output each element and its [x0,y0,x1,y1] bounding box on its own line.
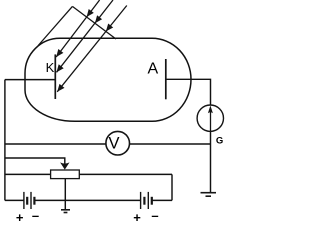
wire left rail [4,80,6,201]
potentiometer body [51,170,80,179]
svg-text:K: K [46,60,55,75]
svg-text:–: – [151,208,158,223]
phototube envelope [25,38,191,121]
light ray 3 [57,6,127,92]
wire V row right [130,143,211,145]
svg-text:G: G [216,135,223,146]
battery B2 cell short 2 [151,197,153,205]
wire K row [5,79,55,81]
svg-text:+: + [133,210,141,223]
light ray 1 [56,0,99,57]
svg-text:+: + [16,210,24,223]
battery B1 cell long 2 [30,192,32,209]
battery B2 cell long 1 [140,192,142,209]
wire battery row mid [35,199,141,201]
galvanometer G [197,105,223,131]
battery B1 cell short 2 [33,197,35,205]
ground under pot [61,210,70,213]
wire A row [166,79,211,192]
svg-text:–: – [32,208,39,223]
light wavefront line [72,6,116,39]
cathode K electrode [54,54,56,99]
wire pot left [5,173,51,175]
svg-text:A: A [148,60,159,77]
wire wiper row [5,158,65,165]
battery B2 cell short 1 [143,197,145,205]
wire battery row right [152,199,172,201]
light ray 2 [57,0,114,72]
wire battery row [5,199,24,201]
wire pot right [79,173,172,175]
battery B2 cell long 2 [147,192,149,209]
light beam left boundary [38,6,72,45]
battery B1 cell long 1 [23,192,25,209]
wire pot bottom tap [64,179,66,210]
wire V row left [5,143,106,145]
battery B1 cell short 1 [26,197,28,205]
potentiometer wiper arrow [60,162,69,169]
anode A electrode [165,59,167,99]
voltmeter V [106,131,130,155]
svg-text:V: V [109,134,120,152]
wire right-bottom vertical [171,174,173,200]
ground right rail [201,193,217,197]
